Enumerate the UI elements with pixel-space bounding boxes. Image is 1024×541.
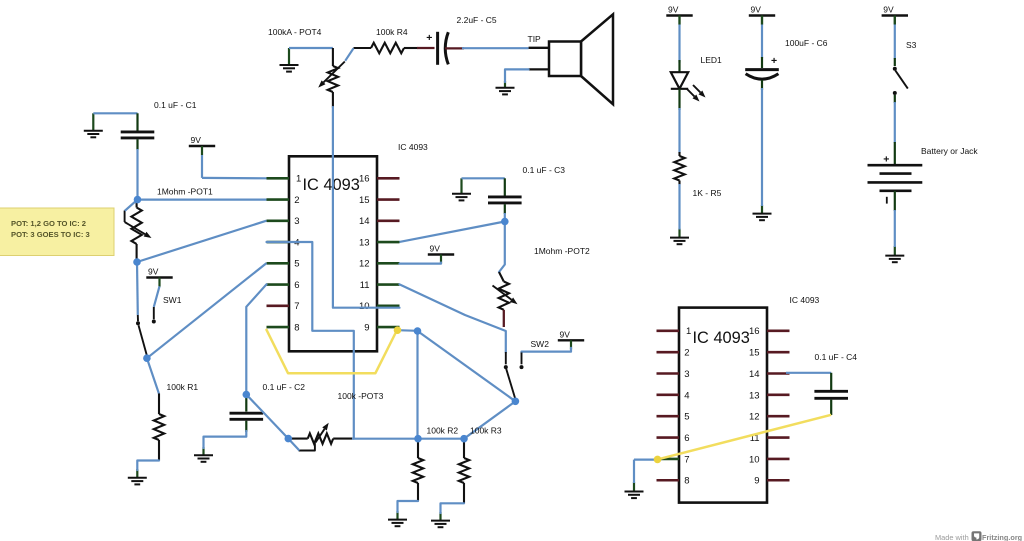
svg-text:5: 5 <box>294 259 299 270</box>
svg-text:0.1 uF - C2: 0.1 uF - C2 <box>263 382 306 392</box>
svg-text:4: 4 <box>684 390 689 401</box>
wire <box>894 24 896 59</box>
wire <box>288 439 299 451</box>
wire <box>352 438 464 440</box>
svg-text:14: 14 <box>359 216 370 227</box>
node K <box>414 327 422 335</box>
resistor R5 <box>674 152 721 198</box>
capacitor C2 <box>230 382 306 432</box>
svg-text:9V: 9V <box>148 267 159 277</box>
ground (battery) <box>885 246 904 262</box>
U1 pin 3 <box>267 216 300 227</box>
wire <box>202 155 267 178</box>
svg-text:SW1: SW1 <box>163 295 182 305</box>
wire <box>400 222 505 242</box>
wire <box>894 102 896 143</box>
U2 pin 4 <box>657 390 690 401</box>
wire <box>441 503 465 513</box>
svg-text:1: 1 <box>686 326 691 337</box>
U2 part label <box>790 295 820 305</box>
svg-text:100k R4: 100k R4 <box>376 27 408 37</box>
resistor R2 <box>413 426 459 502</box>
node B <box>133 258 141 266</box>
9V supply (SW2) <box>558 330 584 350</box>
svg-text:1: 1 <box>296 174 301 185</box>
svg-text:9: 9 <box>754 476 759 487</box>
wire <box>416 331 418 439</box>
svg-text:2.2uF - C5: 2.2uF - C5 <box>457 15 497 25</box>
svg-text:S3: S3 <box>906 40 917 50</box>
svg-text:Made with: Made with <box>935 533 969 541</box>
wire <box>445 47 464 49</box>
svg-text:2: 2 <box>294 195 299 206</box>
svg-text:+: + <box>771 55 777 67</box>
U1 pin 1 <box>267 174 302 185</box>
svg-text:6: 6 <box>684 433 689 444</box>
ground (R5) <box>670 229 689 245</box>
switch SW2 <box>504 339 549 399</box>
U1 big label <box>303 176 360 194</box>
wire <box>633 460 635 483</box>
footer made-with <box>935 531 1022 541</box>
svg-text:6: 6 <box>294 280 299 291</box>
wire <box>505 69 529 82</box>
capacitor C4 <box>814 352 857 415</box>
battery BT1 <box>868 142 979 211</box>
U2 pin 7 <box>657 454 690 465</box>
svg-text:Fritzing.org: Fritzing.org <box>982 533 1022 541</box>
svg-text:0.1 uF - C3: 0.1 uF - C3 <box>523 165 566 175</box>
wire <box>462 177 505 179</box>
wire <box>267 242 354 439</box>
U1 pin 15 <box>359 195 399 206</box>
note: POT routing <box>0 208 114 256</box>
node J yellow <box>394 326 402 334</box>
9V supply (SW1) <box>146 267 172 287</box>
resistor R1 <box>154 382 199 461</box>
capacitor C6 <box>745 16 828 91</box>
LED LED1 <box>671 16 722 111</box>
svg-text:IC 4093: IC 4093 <box>693 329 750 347</box>
9V supply (C6) <box>749 5 775 25</box>
wire <box>204 431 247 448</box>
potentiometer POT2 <box>493 246 591 310</box>
svg-text:7: 7 <box>294 301 299 312</box>
svg-text:+: + <box>883 153 889 165</box>
svg-text:+: + <box>426 32 432 44</box>
U1 pin 13 <box>359 237 399 248</box>
svg-text:16: 16 <box>359 174 370 185</box>
wire <box>246 284 266 392</box>
U1 pin 14 <box>359 216 399 227</box>
ground (C6) <box>753 205 772 220</box>
U1 pin 16 <box>359 174 399 185</box>
U2 pin 3 <box>657 369 690 380</box>
svg-text:12: 12 <box>359 259 370 270</box>
node G <box>285 435 293 443</box>
speaker TIP <box>528 14 614 104</box>
resistor R3 <box>459 426 502 504</box>
wire <box>761 24 763 58</box>
wire <box>400 284 506 352</box>
U1 pin 6 <box>267 280 300 291</box>
U1 pin 10 <box>359 301 399 312</box>
U2 pin 2 <box>657 348 690 359</box>
U2 pin 6 <box>657 433 690 444</box>
wire <box>147 263 267 358</box>
svg-text:POT: 1,2 GO TO IC: 2: POT: 1,2 GO TO IC: 2 <box>11 219 86 228</box>
U1 pin 9 <box>364 322 399 333</box>
U2 pin 5 <box>657 412 690 423</box>
wire <box>137 461 159 471</box>
U2 pin 1 <box>657 326 692 337</box>
wire <box>345 48 353 61</box>
svg-text:9V: 9V <box>751 5 762 15</box>
op IC U1 4093 body <box>289 156 377 351</box>
capacitor C5 <box>426 15 497 65</box>
svg-text:9V: 9V <box>668 5 679 15</box>
U1 part label <box>398 142 428 152</box>
svg-text:2: 2 <box>684 348 689 359</box>
svg-text:1K - R5: 1K - R5 <box>693 188 722 198</box>
9V supply (battery) <box>882 5 908 25</box>
svg-text:Battery or Jack: Battery or Jack <box>921 146 978 156</box>
ground (POT4) <box>280 48 299 72</box>
svg-text:LED1: LED1 <box>701 55 723 65</box>
potentiometer POT1 <box>125 187 213 261</box>
wire <box>154 286 160 307</box>
wire <box>93 112 137 114</box>
svg-text:1Mohm -POT1: 1Mohm -POT1 <box>157 187 213 197</box>
svg-text:16: 16 <box>749 326 760 337</box>
wire <box>462 47 529 49</box>
potentiometer POT3 <box>291 391 384 451</box>
svg-text:3: 3 <box>684 369 689 380</box>
svg-text:TIP: TIP <box>528 34 542 44</box>
node L yellow <box>654 456 662 464</box>
wire <box>761 88 763 206</box>
svg-text:100k R2: 100k R2 <box>427 426 459 436</box>
svg-text:7: 7 <box>684 454 689 465</box>
U2 pin 14 <box>749 369 789 380</box>
U2 big label <box>693 329 750 347</box>
svg-text:9V: 9V <box>560 330 571 340</box>
wire <box>400 263 442 264</box>
wire <box>289 47 333 49</box>
switch SW1 <box>136 295 182 356</box>
svg-text:9: 9 <box>364 322 369 333</box>
wire <box>333 107 400 308</box>
wire <box>678 24 680 63</box>
U2 pin 15 <box>749 348 789 359</box>
wire <box>503 310 505 327</box>
ground (U2 pin7) <box>625 482 644 498</box>
svg-text:15: 15 <box>359 195 370 206</box>
node E <box>512 398 520 406</box>
svg-text:9V: 9V <box>883 5 894 15</box>
wire <box>499 222 505 273</box>
ground (speaker) <box>496 81 515 94</box>
node F <box>243 391 251 399</box>
ground (C1) <box>84 113 103 137</box>
node H <box>414 435 422 443</box>
capacitor C3 <box>488 165 565 214</box>
svg-text:13: 13 <box>749 390 760 401</box>
wire <box>894 210 896 247</box>
wire yellow <box>658 415 832 460</box>
wire <box>634 459 657 461</box>
U2 pin 12 <box>749 412 789 423</box>
wire <box>138 199 267 201</box>
U1 pin 11 <box>360 280 400 291</box>
svg-text:11: 11 <box>360 280 370 291</box>
node I <box>460 435 468 443</box>
svg-text:14: 14 <box>749 369 760 380</box>
svg-text:100k -POT3: 100k -POT3 <box>338 391 384 401</box>
ground (R1) <box>128 469 147 484</box>
wire <box>125 200 138 211</box>
svg-text:9V: 9V <box>191 135 202 145</box>
svg-text:12: 12 <box>749 412 760 423</box>
wire <box>678 184 680 230</box>
wire <box>678 108 680 153</box>
9V supply (LED) <box>666 5 692 25</box>
resistor R4 <box>371 27 418 53</box>
svg-text:15: 15 <box>749 348 760 359</box>
ground (C2) <box>194 447 213 462</box>
U1 pin 5 <box>267 259 300 270</box>
U2 pin 10 <box>749 454 789 465</box>
svg-text:IC 4093: IC 4093 <box>303 176 360 194</box>
svg-text:IC 4093: IC 4093 <box>398 142 428 152</box>
svg-text:0.1 uF - C4: 0.1 uF - C4 <box>815 352 858 362</box>
ground (C3) <box>452 178 471 200</box>
U1 pin 2 <box>267 195 300 206</box>
wire <box>417 47 435 49</box>
svg-text:IC 4093: IC 4093 <box>790 295 820 305</box>
node D <box>501 218 509 226</box>
node A <box>134 196 142 204</box>
capacitor C1 <box>121 100 197 150</box>
wire <box>418 331 516 401</box>
svg-text:POT: 3 GOES TO IC: 3: POT: 3 GOES TO IC: 3 <box>11 230 90 239</box>
U2 pin 9 <box>754 476 789 487</box>
svg-text:3: 3 <box>294 216 299 227</box>
wire <box>522 348 572 353</box>
svg-text:100k R1: 100k R1 <box>167 382 199 392</box>
svg-text:8: 8 <box>684 476 689 487</box>
wire <box>786 372 831 374</box>
ground (R2) <box>388 511 407 526</box>
U1 pin 12 <box>359 259 399 270</box>
wire yellow <box>267 330 397 373</box>
9V supply (pin1) <box>189 135 215 155</box>
potentiometer POT4 <box>268 27 371 108</box>
wire <box>147 358 159 394</box>
wire <box>398 501 419 512</box>
svg-text:100uF - C6: 100uF - C6 <box>785 38 828 48</box>
U1 pin 4 <box>267 237 300 248</box>
switch S3 <box>893 16 917 104</box>
U1 pin 7 <box>267 301 300 312</box>
IC U2 4093 body <box>679 308 767 503</box>
wire <box>136 262 139 315</box>
node C <box>143 354 151 362</box>
U2 pin 13 <box>749 390 789 401</box>
svg-text:0.1 uF - C1: 0.1 uF - C1 <box>154 100 197 110</box>
wire <box>137 221 267 262</box>
U2 pin 8 <box>657 476 690 487</box>
U2 pin 16 <box>749 326 789 337</box>
svg-text:SW2: SW2 <box>531 339 550 349</box>
U2 pin 11 <box>750 433 790 444</box>
wire <box>246 395 288 439</box>
ground (R3) <box>431 512 450 527</box>
wire <box>504 213 506 222</box>
wire <box>464 401 515 438</box>
svg-text:10: 10 <box>749 454 760 465</box>
U1 pin 8 <box>267 322 300 333</box>
wire <box>398 329 418 332</box>
svg-text:9V: 9V <box>430 244 441 254</box>
9V supply (pin12) <box>428 244 454 264</box>
svg-text:13: 13 <box>359 237 370 248</box>
svg-text:100kA - POT4: 100kA - POT4 <box>268 27 322 37</box>
wire <box>136 149 138 197</box>
svg-text:100k R3: 100k R3 <box>470 426 502 436</box>
svg-text:5: 5 <box>684 412 689 423</box>
svg-text:1Mohm -POT2: 1Mohm -POT2 <box>534 246 590 256</box>
svg-text:8: 8 <box>294 322 299 333</box>
